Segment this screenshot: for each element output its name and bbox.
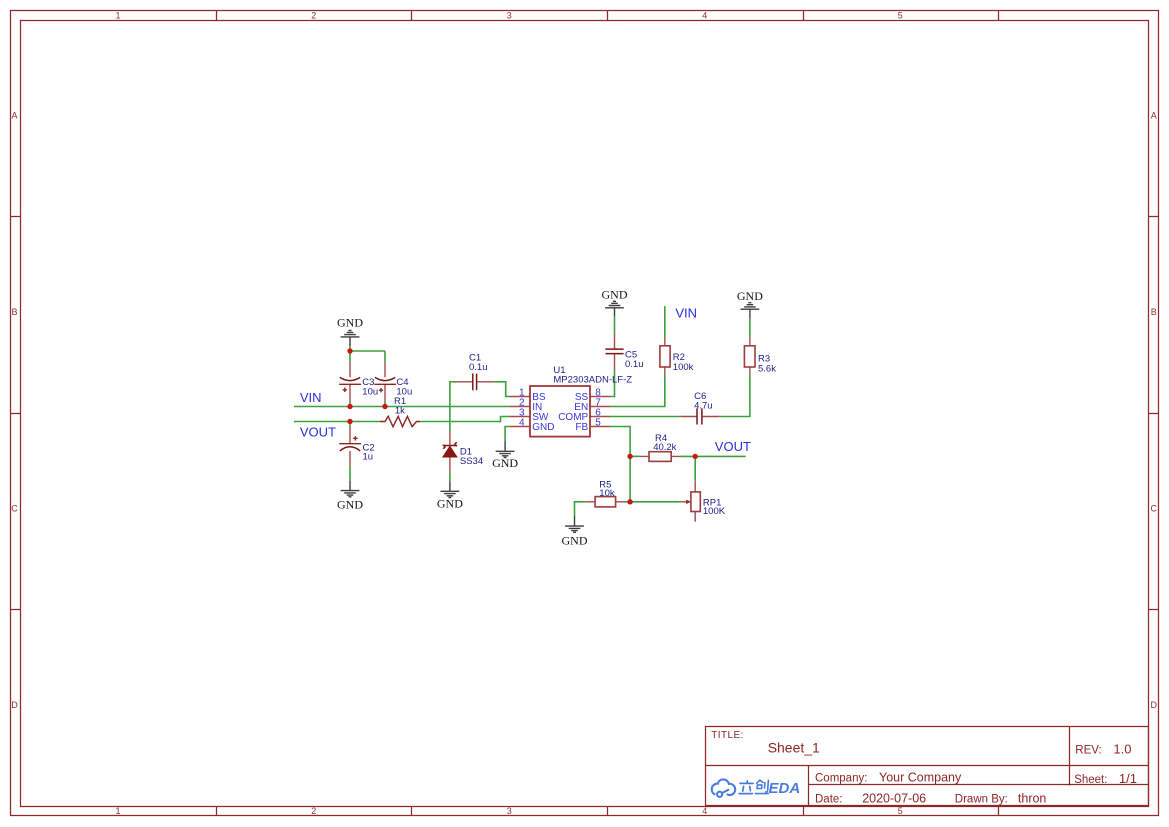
svg-text:1u: 1u <box>363 451 374 462</box>
svg-text:GND: GND <box>602 288 628 302</box>
svg-text:A: A <box>11 111 17 121</box>
wire VOUT rail left <box>294 421 380 423</box>
svg-text:1: 1 <box>115 806 120 816</box>
logo text 立 <box>739 781 753 794</box>
wire VIN rail <box>294 406 510 408</box>
resistor R1 <box>380 416 420 426</box>
svg-text:1/1: 1/1 <box>1119 771 1137 786</box>
svg-text:5: 5 <box>898 806 903 816</box>
wire R2 top to VIN flag <box>664 306 666 337</box>
ground symbol above C3 <box>341 330 360 346</box>
svg-text:100k: 100k <box>673 362 694 373</box>
svg-text:10u: 10u <box>396 386 412 397</box>
svg-text:Drawn By:: Drawn By: <box>955 793 1008 805</box>
R2 stem <box>664 338 666 375</box>
capacitor C1 <box>473 374 477 391</box>
svg-text:GND: GND <box>737 289 763 303</box>
wire C1 right to BS pin <box>494 382 510 397</box>
column ticks bottom <box>217 807 999 816</box>
svg-text:D: D <box>1151 700 1158 710</box>
IC U1 <box>530 386 590 437</box>
svg-text:FB: FB <box>575 422 588 433</box>
capacitor C3 <box>340 377 360 380</box>
svg-text:SS34: SS34 <box>460 456 483 467</box>
wire R3 top to gnd <box>749 318 751 337</box>
wire C2 bottom to gnd <box>349 466 351 481</box>
svg-text:2020-07-06: 2020-07-06 <box>862 791 926 805</box>
wire SS pin8 to C5 <box>610 371 615 396</box>
junction C4 bottom <box>382 404 387 409</box>
RP1 stems <box>694 481 696 522</box>
svg-text:10u: 10u <box>362 386 378 397</box>
ground symbol above C5 <box>605 301 624 316</box>
svg-text:40.2k: 40.2k <box>653 442 676 453</box>
junction R5-FB <box>627 499 632 504</box>
svg-text:4: 4 <box>702 806 707 816</box>
logo text 创 <box>755 780 768 794</box>
R3 stem <box>749 337 751 375</box>
svg-text:Sheet_1: Sheet_1 <box>768 740 820 756</box>
svg-text:4: 4 <box>519 418 525 429</box>
capacitor C5 <box>605 349 623 354</box>
junction C3 top <box>347 348 352 353</box>
ground symbol below R5 <box>565 516 584 533</box>
wire C3 bottom <box>349 402 351 407</box>
junction C3 bottom <box>347 404 352 409</box>
row ticks right <box>1149 217 1159 610</box>
resistor R3 <box>744 346 755 367</box>
wire C6 to R3 <box>719 375 750 417</box>
junction C2 top <box>347 419 352 424</box>
wire C1 left vertical to D1 <box>450 382 455 432</box>
svg-text:Sheet:: Sheet: <box>1074 774 1107 786</box>
C1 stem <box>455 381 494 383</box>
wire R4 right VOUT <box>681 455 746 457</box>
svg-text:4.7u: 4.7u <box>694 401 713 412</box>
svg-text:3: 3 <box>507 11 512 21</box>
title block logo cell divider <box>808 766 810 806</box>
resistor R2 <box>660 346 670 367</box>
svg-text:A: A <box>1151 111 1157 121</box>
wire C5 top to gnd <box>614 316 616 332</box>
svg-text:D: D <box>11 700 18 710</box>
diode D1 <box>443 443 483 467</box>
svg-text:2: 2 <box>311 11 316 21</box>
wire EN pin7 to R2 <box>610 375 665 407</box>
D1 stem <box>449 432 451 473</box>
title block title row divider <box>706 765 1149 767</box>
capacitor C6 <box>697 408 702 424</box>
junction FB-R4 <box>627 454 632 459</box>
ground symbol pin4 <box>496 441 515 457</box>
svg-text:C: C <box>11 504 18 514</box>
svg-text:1.0: 1.0 <box>1113 742 1131 757</box>
svg-text:GND: GND <box>337 316 363 330</box>
svg-text:2: 2 <box>311 806 316 816</box>
svg-text:C: C <box>1151 504 1158 514</box>
potentiometer RP1 <box>680 492 726 517</box>
wire COMP pin6 to C6 <box>610 416 681 418</box>
svg-text:Company:: Company: <box>815 772 867 784</box>
U1 pin stubs left <box>510 397 530 427</box>
svg-text:3: 3 <box>507 806 512 816</box>
capacitor C4 <box>375 377 395 380</box>
logo cloud icon <box>712 779 735 796</box>
ground symbol below D1 <box>441 482 460 498</box>
wire GND top link C3-C4 <box>350 346 385 362</box>
svg-text:5: 5 <box>595 418 601 429</box>
ground symbol above R3 <box>741 303 760 318</box>
ground symbol below C2 <box>341 481 360 497</box>
junction R4-RP1 <box>693 454 698 459</box>
svg-text:VOUT: VOUT <box>715 439 751 454</box>
R5 stem <box>586 501 625 503</box>
wire R4 left <box>630 455 640 457</box>
svg-text:B: B <box>11 307 17 317</box>
wire C4 bottom <box>384 402 386 407</box>
svg-text:TITLE:: TITLE: <box>711 730 743 741</box>
svg-text:GND: GND <box>492 456 518 470</box>
wire FB pin5 down <box>610 427 630 502</box>
svg-text:0.1u: 0.1u <box>469 362 488 373</box>
svg-text:GND: GND <box>337 497 363 511</box>
column ticks top <box>217 11 999 21</box>
svg-text:5.6k: 5.6k <box>758 363 776 374</box>
svg-text:REV:: REV: <box>1075 745 1101 757</box>
svg-text:VIN: VIN <box>675 306 697 321</box>
wire C2 top <box>349 422 351 427</box>
svg-text:4: 4 <box>702 11 707 21</box>
C3 stem <box>349 362 351 402</box>
svg-text:0.1u: 0.1u <box>625 359 644 370</box>
wire VOUT rail right to SW pin <box>420 417 510 422</box>
svg-text:1k: 1k <box>395 406 405 417</box>
capacitor C2 <box>339 443 361 445</box>
wire R5 right to wiper <box>625 501 680 503</box>
wire RP1 top <box>694 456 696 480</box>
wire GND pin4 <box>505 427 510 442</box>
svg-text:100K: 100K <box>703 506 726 517</box>
svg-text:EDA: EDA <box>769 780 801 797</box>
svg-text:GND: GND <box>562 534 588 548</box>
svg-text:VOUT: VOUT <box>300 425 336 440</box>
U1 pin stubs right <box>590 397 610 427</box>
svg-text:MP2303ADN-LF-Z: MP2303ADN-LF-Z <box>553 374 632 385</box>
title block outline <box>706 727 1149 806</box>
svg-text:5: 5 <box>898 11 903 21</box>
svg-text:Date:: Date: <box>815 793 843 805</box>
svg-text:VIN: VIN <box>300 390 322 405</box>
svg-text:GND: GND <box>532 422 554 433</box>
wire D1 bottom to gnd <box>449 472 451 482</box>
R4 stem <box>640 455 681 457</box>
C2 stem <box>349 427 351 467</box>
svg-text:1: 1 <box>115 11 120 21</box>
svg-text:GND: GND <box>437 496 463 510</box>
C4 stem <box>384 362 386 402</box>
svg-text:thron: thron <box>1018 791 1047 805</box>
resistor R4 <box>649 452 671 462</box>
title block rev column divider <box>1069 727 1071 786</box>
row ticks left <box>11 217 21 610</box>
C5 stem <box>614 333 616 372</box>
title block date row divider <box>809 784 1149 786</box>
svg-text:10k: 10k <box>599 488 615 499</box>
svg-text:B: B <box>1151 307 1157 317</box>
wire R5 left <box>575 502 586 516</box>
resistor R5 <box>595 497 616 507</box>
svg-text:Your Company: Your Company <box>879 770 962 784</box>
C6 stem <box>681 416 720 418</box>
